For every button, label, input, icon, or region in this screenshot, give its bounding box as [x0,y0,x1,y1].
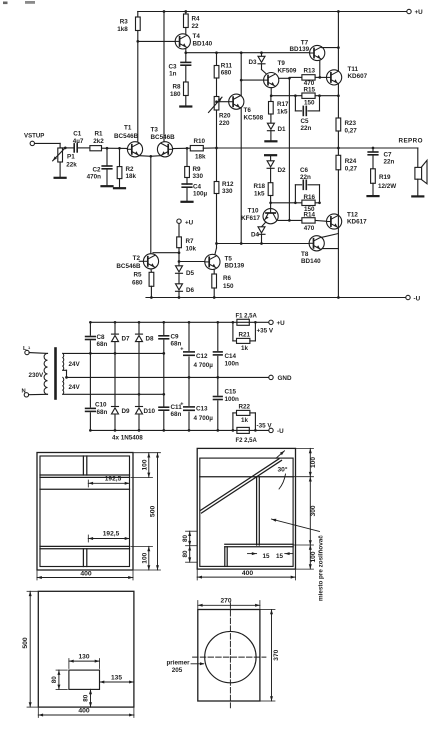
svg-text:1k5: 1k5 [254,190,265,197]
svg-text:270: 270 [220,598,231,605]
svg-text:400: 400 [242,570,254,577]
svg-text:P1: P1 [67,154,75,161]
svg-text:15: 15 [262,553,270,560]
svg-text:D7: D7 [122,336,131,343]
svg-text:470n: 470n [87,173,102,180]
svg-text:T4: T4 [193,33,201,40]
svg-text:KC508: KC508 [244,115,264,122]
svg-text:4 700µ: 4 700µ [194,362,214,369]
svg-text:D10: D10 [144,408,156,415]
svg-text:150: 150 [304,99,315,106]
svg-text:22: 22 [192,23,200,30]
svg-text:68n: 68n [171,411,182,418]
svg-text:10k: 10k [186,246,197,253]
svg-text:192,5: 192,5 [105,476,122,483]
svg-text:4x 1N5408: 4x 1N5408 [112,435,143,442]
svg-text:205: 205 [172,667,183,674]
svg-text:F1 2,5A: F1 2,5A [236,313,258,319]
svg-text:24V: 24V [69,384,81,391]
svg-text:192,5: 192,5 [103,531,120,538]
svg-text:D6: D6 [186,287,195,294]
svg-text:T10: T10 [248,208,259,215]
svg-text:T12: T12 [347,211,358,218]
svg-text:1k5: 1k5 [277,108,288,115]
svg-text:C14: C14 [225,353,237,360]
svg-text:330: 330 [222,188,233,195]
svg-text:22k: 22k [66,161,77,168]
svg-text:1k: 1k [241,345,249,352]
svg-text:R23: R23 [345,120,357,127]
svg-text:C2: C2 [92,166,101,173]
svg-text:R19: R19 [379,174,391,181]
svg-text:D8: D8 [146,336,155,343]
svg-text:L: L [23,346,27,352]
svg-text:C8: C8 [97,334,106,341]
svg-text:R17: R17 [277,101,289,108]
svg-text:230V: 230V [29,372,45,379]
svg-text:T2: T2 [133,255,141,262]
svg-text:15: 15 [276,553,284,560]
svg-text:+: + [180,347,183,353]
svg-text:+U: +U [185,220,194,227]
svg-text:150: 150 [223,283,234,290]
svg-text:+: + [180,402,183,408]
svg-text:100: 100 [310,457,317,468]
svg-text:-U: -U [414,295,421,302]
svg-text:miesto pre zosilňovač: miesto pre zosilňovač [318,535,325,601]
svg-text:R9: R9 [193,166,202,173]
svg-text:R10: R10 [194,138,206,145]
svg-text:400: 400 [80,570,92,577]
svg-text:-35 V: -35 V [257,423,273,430]
svg-text:D4: D4 [251,231,260,238]
svg-text:12/2W: 12/2W [378,183,396,190]
svg-text:T5: T5 [225,255,233,262]
svg-text:500: 500 [150,506,157,518]
svg-text:T8: T8 [301,251,309,258]
svg-text:T1: T1 [124,125,132,132]
svg-text:C9: C9 [171,334,180,341]
svg-text:KF617: KF617 [241,215,260,222]
svg-text:22n: 22n [300,174,311,181]
svg-text:R6: R6 [223,275,232,282]
svg-text:BD140: BD140 [301,258,321,265]
svg-text:KD607: KD607 [348,73,368,80]
svg-text:400: 400 [78,708,90,715]
svg-text:80: 80 [182,550,189,558]
svg-text:300: 300 [310,505,317,516]
svg-text:D2: D2 [278,167,287,174]
svg-text:68n: 68n [97,341,108,348]
svg-text:220: 220 [219,120,230,127]
svg-text:C3: C3 [168,64,177,71]
svg-text:80: 80 [182,535,189,543]
svg-text:0,27: 0,27 [345,127,358,134]
svg-text:C7: C7 [384,151,393,158]
svg-text:C6: C6 [300,167,309,174]
svg-text:+35 V: +35 V [257,328,274,335]
svg-text:T6: T6 [244,107,252,114]
svg-text:24V: 24V [69,361,81,368]
svg-text:100: 100 [141,459,148,470]
svg-text:R1: R1 [95,130,104,137]
svg-text:C12: C12 [196,353,208,360]
svg-text:F2 2,5A: F2 2,5A [236,438,258,444]
svg-text:D3: D3 [248,59,257,66]
svg-text:1n: 1n [169,71,177,78]
svg-text:R18: R18 [253,183,265,190]
svg-text:C4: C4 [193,184,202,191]
svg-text:C10: C10 [95,401,107,408]
svg-text:KD617: KD617 [347,218,367,225]
svg-text:0,27: 0,27 [345,165,358,172]
svg-text:-U: -U [277,428,284,435]
svg-text:R4: R4 [192,16,201,23]
svg-text:4µ7: 4µ7 [73,138,84,145]
svg-text:R3: R3 [120,18,129,25]
svg-text:680: 680 [132,279,143,286]
svg-text:R8: R8 [172,84,181,91]
svg-text:C15: C15 [225,389,237,396]
svg-text:470: 470 [304,80,315,87]
svg-text:4 700µ: 4 700µ [194,415,214,422]
svg-text:T11: T11 [348,66,359,73]
svg-text:22n: 22n [384,158,395,165]
svg-text:+U: +U [415,9,424,16]
svg-text:N: N [22,389,26,395]
svg-text:100n: 100n [225,361,240,368]
svg-text:T3: T3 [151,126,159,133]
svg-text:R14: R14 [304,211,316,218]
svg-text:C1: C1 [73,130,82,137]
svg-text:R11: R11 [221,62,233,69]
svg-text:BD139: BD139 [225,263,245,270]
svg-text:D9: D9 [122,408,131,415]
svg-text:D5: D5 [186,270,195,277]
svg-text:C13: C13 [196,406,208,413]
svg-text:R2: R2 [126,166,135,173]
svg-text:GND: GND [278,375,292,382]
svg-text:R24: R24 [345,158,357,165]
svg-text:130: 130 [78,654,89,661]
svg-text:22n: 22n [301,125,312,132]
svg-text:VSTUP: VSTUP [24,133,44,140]
svg-text:2k2: 2k2 [93,138,104,145]
svg-text:R20: R20 [219,113,231,120]
svg-text:80: 80 [83,694,90,702]
svg-text:18k: 18k [195,153,206,160]
svg-text:REPRO: REPRO [399,138,423,145]
svg-text:100: 100 [310,551,317,562]
svg-text:T9: T9 [278,60,286,67]
svg-text:R22: R22 [239,404,251,411]
svg-text:R12: R12 [222,181,234,188]
svg-text:68n: 68n [97,409,108,416]
svg-text:30°: 30° [278,465,288,473]
svg-text:D1: D1 [278,126,287,133]
svg-text:80: 80 [51,676,58,684]
svg-text:BD139: BD139 [290,46,310,53]
svg-text:100µ: 100µ [193,191,208,198]
svg-text:BD140: BD140 [193,40,213,47]
svg-text:470: 470 [304,225,315,232]
svg-text:R15: R15 [304,87,316,94]
svg-text:1k8: 1k8 [117,26,128,33]
svg-text:R21: R21 [239,332,251,339]
svg-text:BC546B: BC546B [151,134,176,141]
svg-text:500: 500 [22,637,29,649]
svg-text:R13: R13 [304,68,316,75]
svg-text:R16: R16 [304,194,316,201]
svg-text:R7: R7 [186,238,195,245]
svg-text:KF509: KF509 [278,67,297,74]
svg-text:135: 135 [111,674,122,681]
svg-text:priemer: priemer [166,659,190,666]
svg-text:370: 370 [273,649,280,660]
svg-text:180: 180 [170,91,181,98]
svg-text:100: 100 [141,552,148,563]
svg-text:BC546B: BC546B [116,263,141,270]
svg-text:680: 680 [221,70,232,77]
svg-text:330: 330 [193,173,204,180]
svg-text:+U: +U [277,320,286,327]
svg-text:18k: 18k [126,173,137,180]
svg-text:BC546B: BC546B [114,133,139,140]
svg-text:R5: R5 [133,271,142,278]
svg-text:1k: 1k [241,417,249,424]
svg-text:100n: 100n [225,396,240,403]
